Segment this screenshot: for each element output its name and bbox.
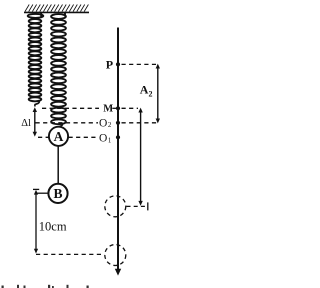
ceiling line	[24, 11, 89, 13]
svg-text:M: M	[103, 104, 113, 115]
point P	[116, 62, 120, 66]
point O1	[116, 135, 120, 139]
svg-text:O: O	[99, 118, 107, 130]
bottom dashed line	[36, 253, 105, 255]
ruler vertical line	[117, 28, 119, 272]
svg-text:2: 2	[108, 121, 112, 129]
svg-text:2: 2	[149, 89, 153, 98]
left spring (relaxed)	[28, 12, 44, 101]
right spring bottom link	[59, 124, 63, 127]
svg-text:O: O	[99, 132, 107, 144]
dashed line M level (left)	[42, 107, 99, 109]
ball A	[49, 127, 68, 146]
left spring bottom hook	[35, 101, 40, 107]
svg-text:P: P	[106, 58, 113, 72]
10cm dimension	[33, 189, 48, 253]
dashed line O1 level (left of circle A)	[38, 136, 49, 138]
point M	[116, 106, 120, 110]
svg-text:B: B	[53, 186, 62, 201]
svg-text:A: A	[140, 82, 149, 96]
dashed line O1 level (right of circle A)	[69, 136, 98, 138]
ball B	[48, 184, 67, 203]
svg-text:A: A	[54, 129, 64, 144]
dashed circle upper	[105, 196, 126, 217]
svg-text:10cm: 10cm	[39, 220, 67, 234]
A2 amplitude arrow	[156, 64, 160, 124]
delta-l arrow	[33, 107, 37, 136]
svg-text:1: 1	[108, 136, 112, 144]
second vertical arrow	[138, 108, 142, 206]
point O2	[116, 121, 120, 125]
right spring (stretched)	[51, 12, 66, 124]
ceiling hatching	[25, 5, 88, 12]
wire A to B	[57, 146, 59, 184]
dashed circle lower	[105, 245, 126, 266]
dashed line O2 level (left)	[36, 122, 99, 124]
svg-text:Δl: Δl	[21, 118, 31, 129]
bottom cropped text marks	[2, 285, 89, 288]
dashed link to tick	[127, 205, 147, 207]
